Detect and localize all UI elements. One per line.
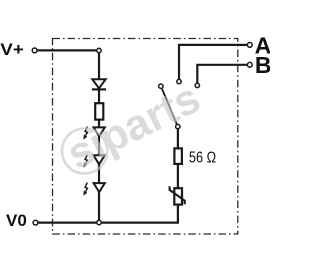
wire diode to resistor <box>98 89 100 103</box>
wire A to switch contact <box>179 45 247 79</box>
enclosure dash-dot boundary <box>53 39 238 235</box>
wire B to switch contact <box>197 65 247 83</box>
svg-text:B: B <box>255 52 270 78</box>
svg-text:56 Ω: 56 Ω <box>189 150 216 167</box>
LED1 flash arrow <box>83 127 87 140</box>
switch lever arm <box>162 89 177 124</box>
watermark <box>60 74 208 179</box>
diode D1 <box>92 79 106 89</box>
wire V+ to node top <box>37 49 96 51</box>
LED2 <box>94 155 105 164</box>
node top junction <box>97 48 101 52</box>
switch pole <box>176 124 180 128</box>
switch lever tip <box>159 84 163 88</box>
LED2 flash arrow <box>83 155 87 168</box>
resistor R1 <box>95 103 103 119</box>
LED3 flash arrow <box>83 183 87 196</box>
svg-text:V0: V0 <box>6 211 27 230</box>
varistor RV1 <box>170 186 185 204</box>
switch contact A <box>177 79 181 83</box>
terminal V+ <box>32 48 37 53</box>
wire LED2 to LED3 <box>98 164 100 183</box>
wire node bottom to varistor leg <box>101 205 177 223</box>
node bottom junction <box>97 220 101 224</box>
wire pole to resistor 56 <box>177 129 179 148</box>
wire LED3 to node bottom <box>98 192 100 220</box>
wire LED1 to LED2 <box>98 136 100 156</box>
terminal B <box>247 62 252 67</box>
wire V0 to node bottom <box>38 222 96 224</box>
wire node to diode <box>98 53 100 80</box>
wire resistor 56 to varistor <box>177 164 179 188</box>
svg-text:V+: V+ <box>0 40 24 59</box>
terminal A <box>247 43 252 48</box>
switch contact B <box>195 83 199 87</box>
resistor 56 ohm <box>174 148 182 164</box>
LED1 <box>94 127 105 136</box>
terminal V0 <box>33 220 38 225</box>
wire resistor to LED1 <box>98 120 100 128</box>
LED3 <box>94 183 105 192</box>
